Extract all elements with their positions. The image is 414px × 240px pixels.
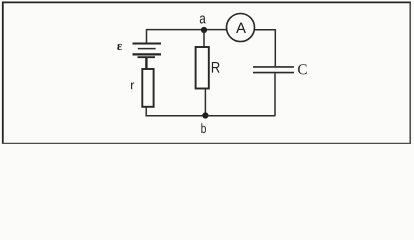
label r bbox=[131, 82, 134, 89]
wire bottom rail: node b to capacitor branch bbox=[207, 115, 275, 117]
node b bbox=[201, 112, 208, 133]
label R bbox=[212, 62, 220, 73]
wire: ammeter to capacitor top bbox=[254, 30, 275, 66]
capacitor C plates bbox=[253, 67, 294, 73]
wire: resistor R down to node b bbox=[204, 89, 206, 116]
resistor R bbox=[196, 47, 209, 89]
wire: node a to ammeter bbox=[205, 29, 227, 31]
label epsilon (EMF) bbox=[117, 44, 122, 50]
wire: r to bottom rail to node b bbox=[146, 107, 203, 116]
node a bbox=[200, 16, 207, 34]
label C bbox=[298, 64, 307, 74]
battery EMF source bbox=[133, 44, 162, 58]
wire: battery to internal resistance r bbox=[145, 58, 147, 70]
wire: node a down to resistor R bbox=[203, 30, 205, 48]
resistor r (internal resistance) bbox=[142, 69, 153, 107]
ammeter A bbox=[227, 14, 255, 42]
wire: capacitor bottom to bottom rail bbox=[274, 73, 276, 115]
wire top rail: battery to node a bbox=[147, 30, 204, 43]
